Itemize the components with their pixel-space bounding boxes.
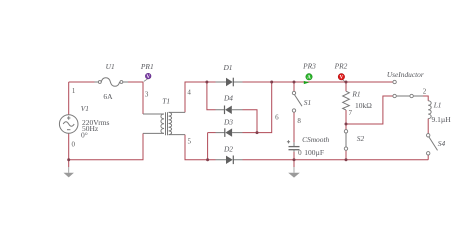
svg-text:V1: V1 [81, 104, 89, 113]
svg-text:V: V [340, 76, 344, 81]
svg-text:3: 3 [145, 91, 149, 99]
svg-text:5: 5 [187, 138, 191, 146]
svg-text:A: A [307, 76, 311, 81]
svg-text:0: 0 [298, 149, 302, 157]
svg-text:8: 8 [297, 117, 301, 125]
svg-text:R1: R1 [351, 90, 360, 99]
svg-text:1: 1 [72, 87, 76, 95]
svg-text:S2: S2 [357, 134, 365, 143]
svg-text:10kΩ: 10kΩ [355, 101, 372, 110]
svg-text:4: 4 [187, 89, 191, 97]
svg-text:0: 0 [72, 140, 76, 148]
svg-text:U1: U1 [106, 62, 115, 71]
svg-text:D1: D1 [222, 63, 232, 72]
svg-text:6A: 6A [103, 92, 113, 101]
svg-text:D3: D3 [223, 118, 233, 127]
svg-text:CSmooth: CSmooth [302, 135, 329, 144]
svg-text:6: 6 [275, 114, 279, 122]
svg-text:S4: S4 [438, 139, 446, 148]
svg-text:L1: L1 [433, 100, 442, 109]
svg-text:100µF: 100µF [304, 148, 324, 157]
svg-text:T1: T1 [162, 96, 170, 105]
svg-text:7: 7 [349, 109, 353, 117]
svg-text:2: 2 [423, 87, 427, 95]
svg-text:PR1: PR1 [140, 62, 154, 71]
svg-text:9.1µH: 9.1µH [432, 115, 452, 124]
svg-text:UseInductor: UseInductor [387, 70, 424, 79]
svg-text:PR2: PR2 [334, 62, 348, 71]
svg-text:0°: 0° [81, 131, 88, 140]
svg-text:D2: D2 [223, 144, 233, 153]
svg-text:S1: S1 [304, 98, 311, 107]
svg-text:PR3: PR3 [302, 62, 316, 71]
svg-text:D4: D4 [223, 94, 233, 103]
svg-text:V: V [146, 75, 150, 80]
